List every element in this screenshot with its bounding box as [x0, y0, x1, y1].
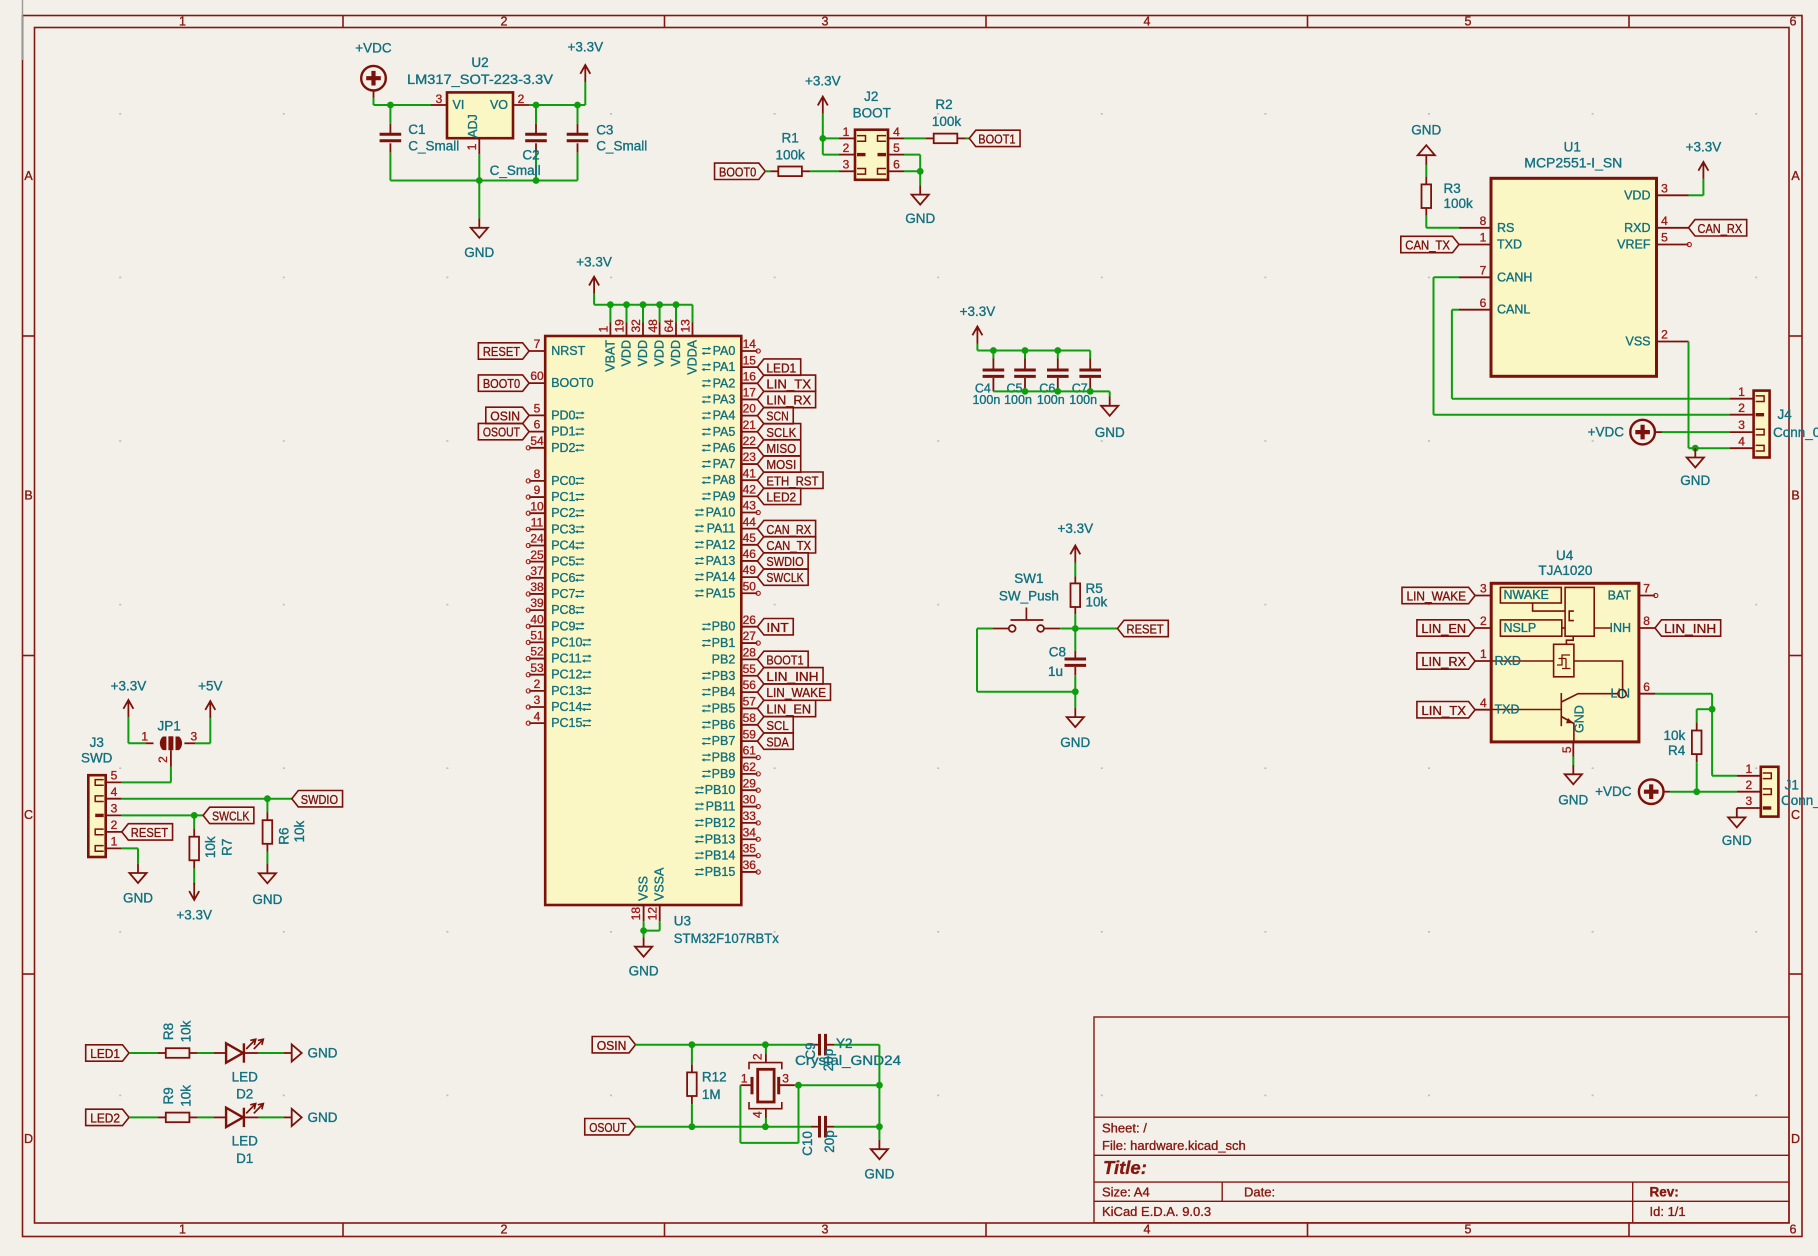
svg-text:C_Small: C_Small [408, 139, 459, 154]
svg-text:SWCLK: SWCLK [766, 570, 804, 585]
svg-text:LIN_WAKE: LIN_WAKE [1407, 589, 1467, 604]
svg-text:2: 2 [518, 92, 525, 106]
svg-text:LIN_RX: LIN_RX [1421, 654, 1466, 669]
svg-text:3: 3 [1480, 582, 1487, 596]
svg-text:PA7: PA7 [713, 457, 736, 471]
U3 pin 55 PB3 [702, 662, 758, 683]
svg-text:ADJ: ADJ [466, 114, 480, 138]
svg-text:5: 5 [1661, 231, 1668, 245]
svg-text:PB6: PB6 [712, 718, 736, 732]
svg-text:4: 4 [1738, 434, 1745, 448]
U3 pin 42 PA9 [702, 482, 758, 503]
wire +3.3V to J2 pins [823, 138, 839, 154]
svg-text:PB3: PB3 [712, 669, 736, 683]
svg-text:GND: GND [1558, 792, 1588, 807]
svg-text:PC14: PC14 [551, 700, 582, 714]
U3 pin 36 PB15 [695, 858, 761, 879]
svg-text:1: 1 [179, 1223, 186, 1237]
junction R12 bottom [689, 1123, 696, 1130]
svg-text:8: 8 [1643, 614, 1650, 628]
svg-text:B: B [24, 489, 32, 503]
svg-text:J4: J4 [1777, 407, 1792, 422]
junction SWCLK/R7 [191, 812, 198, 819]
svg-text:+3.3V: +3.3V [176, 907, 212, 922]
U3 pin 60 BOOT0 [529, 369, 594, 390]
svg-text:23: 23 [743, 450, 757, 464]
U3 pin 13 VDDA (top) [679, 319, 700, 375]
svg-text:INH: INH [1609, 621, 1631, 635]
wire +VDC to VI [374, 98, 432, 106]
svg-text:GND: GND [864, 1167, 894, 1182]
unconnected BAT pin [1654, 593, 1658, 597]
svg-text:JP1: JP1 [157, 718, 180, 733]
svg-text:PC7: PC7 [551, 587, 575, 601]
grid dots [119, 113, 1757, 1096]
svg-text:PA15: PA15 [706, 586, 736, 600]
svg-text:11: 11 [531, 515, 544, 529]
svg-text:A: A [1791, 169, 1800, 183]
svg-text:B: B [1791, 489, 1799, 503]
svg-text:PA5: PA5 [713, 425, 736, 439]
svg-text:4: 4 [1144, 1223, 1151, 1237]
U3 pin 27 PB1 [702, 629, 761, 650]
svg-text:20: 20 [743, 402, 757, 416]
U3 pin 15 PA1 [702, 353, 758, 374]
svg-text:OSIN: OSIN [490, 409, 520, 424]
svg-text:LIN_INH: LIN_INH [766, 669, 818, 684]
svg-text:39: 39 [530, 596, 544, 610]
svg-text:C3: C3 [596, 123, 613, 138]
global label BOOT0 (J2) [715, 163, 766, 179]
U3 pin 24 PC4 [526, 532, 585, 553]
svg-text:4: 4 [1144, 15, 1151, 29]
U3 pin 21 PA5 [702, 418, 758, 439]
U3 pin 54 PD2 [526, 434, 585, 455]
svg-text:100n: 100n [972, 393, 1000, 407]
svg-text:4: 4 [111, 785, 118, 799]
svg-text:PB9: PB9 [712, 767, 736, 781]
U3 pin 20 PA4 [702, 402, 758, 423]
title block [1094, 1017, 1789, 1223]
U3 pin 22 PA6 [702, 434, 758, 455]
svg-text:GND: GND [464, 245, 494, 260]
svg-text:30: 30 [743, 793, 757, 807]
ground symbol (U3) [629, 937, 659, 978]
svg-text:R2: R2 [935, 97, 952, 112]
svg-text:36: 36 [743, 858, 757, 872]
connector J3 [81, 735, 122, 857]
svg-text:3: 3 [1745, 794, 1752, 808]
svg-text:+3.3V: +3.3V [805, 73, 841, 88]
power symbol +VDC (J1) [1595, 779, 1737, 804]
CAN transceiver U1 [1459, 139, 1689, 376]
svg-text:50: 50 [743, 579, 757, 593]
svg-text:OSOUT: OSOUT [589, 1120, 626, 1135]
svg-text:1: 1 [1738, 385, 1745, 399]
svg-text:PB0: PB0 [712, 620, 736, 634]
svg-text:C2: C2 [522, 148, 539, 163]
junction C2 top [533, 102, 540, 109]
svg-text:OSOUT: OSOUT [483, 425, 520, 440]
svg-text:7: 7 [1643, 582, 1650, 596]
svg-text:10k: 10k [292, 820, 307, 842]
svg-text:BOOT: BOOT [853, 106, 891, 121]
U3 pin 41 PA8 [702, 466, 758, 487]
svg-text:PA3: PA3 [713, 392, 736, 406]
global label SCL (U3) [757, 717, 793, 733]
svg-text:PA14: PA14 [706, 570, 736, 584]
wire JP1 pin2 to J3 pin5 [122, 767, 171, 783]
svg-text:RS: RS [1497, 221, 1514, 235]
resistor R4 [1664, 709, 1713, 792]
svg-text:2: 2 [1745, 778, 1752, 792]
svg-text:3: 3 [436, 92, 443, 106]
LIN transceiver U4 [1491, 548, 1639, 742]
svg-text:LIN_TX: LIN_TX [766, 376, 811, 391]
svg-text:41: 41 [743, 466, 757, 480]
U3 pin 44 PA11 [695, 515, 758, 536]
svg-text:LM317_SOT-223-3.3V: LM317_SOT-223-3.3V [407, 72, 553, 87]
svg-text:GND: GND [629, 964, 659, 979]
svg-text:55: 55 [743, 662, 757, 676]
svg-text:LED: LED [232, 1069, 259, 1084]
svg-text:6: 6 [1643, 680, 1650, 694]
U3 pin 62 PB9 [702, 760, 761, 781]
svg-text:A: A [24, 169, 33, 183]
svg-text:LED2: LED2 [766, 489, 796, 504]
U3 pin 37 PC6 [526, 564, 585, 585]
resistor R8 [129, 1020, 214, 1057]
svg-text:10k: 10k [1086, 595, 1108, 610]
svg-text:PC4: PC4 [551, 539, 575, 553]
wire to gnd (SW1) [1074, 692, 1076, 708]
global label LED2 [86, 1109, 129, 1125]
svg-text:+3.3V: +3.3V [567, 39, 603, 54]
ground symbol (crystal) [864, 1140, 894, 1182]
svg-text:6: 6 [1480, 296, 1487, 310]
global label LED1 [86, 1045, 129, 1061]
wire J3 pin4 SWDIO [122, 798, 292, 800]
svg-text:29: 29 [743, 776, 757, 790]
svg-text:4: 4 [1480, 696, 1487, 710]
svg-text:9: 9 [534, 483, 541, 497]
svg-text:48: 48 [646, 319, 660, 333]
resistor R5 [1071, 576, 1108, 628]
svg-text:RESET: RESET [131, 825, 168, 840]
global label MISO (U3) [757, 440, 800, 456]
svg-text:10k: 10k [179, 1085, 194, 1107]
svg-text:4: 4 [1661, 214, 1668, 228]
svg-text:LIN: LIN [1611, 687, 1630, 701]
svg-text:PD1: PD1 [551, 425, 575, 439]
junction R12 top [689, 1041, 696, 1048]
svg-text:GND: GND [252, 892, 282, 907]
capacitor C9 [803, 1034, 879, 1071]
connector J4 [1730, 385, 1818, 458]
svg-text:VDD: VDD [636, 340, 650, 366]
svg-text:Conn_01x03: Conn_01x03 [1781, 793, 1818, 808]
svg-text:51: 51 [530, 629, 544, 643]
svg-text:PB11: PB11 [706, 800, 736, 814]
U3 pin 32 VDD (top) [629, 305, 650, 367]
global label RESET (J3) [122, 824, 173, 840]
svg-text:VREF: VREF [1617, 238, 1651, 252]
U3 pin 12 VSSA (bottom) [645, 867, 666, 921]
power symbol +3.3V inverted (R7) [176, 883, 212, 922]
wire crystal pin1 loop [740, 1085, 798, 1143]
svg-text:C1: C1 [408, 122, 425, 137]
svg-text:D: D [1791, 1132, 1800, 1146]
svg-text:Conn_01x04: Conn_01x04 [1773, 425, 1818, 440]
svg-text:RXD: RXD [1624, 221, 1650, 235]
svg-text:1: 1 [465, 143, 479, 150]
U3 +3.3V power bus [576, 254, 692, 322]
svg-text:+VDC: +VDC [355, 41, 392, 56]
svg-text:40: 40 [530, 612, 544, 626]
regulator U2 [407, 55, 553, 154]
junction C5 top [1022, 347, 1029, 354]
junction C8 gnd [1072, 688, 1079, 695]
U3 pin 1 VBAT (top) [597, 305, 618, 372]
ground symbol (D2) [284, 1044, 338, 1061]
global label INT (U3) [757, 619, 793, 635]
svg-text:PC1: PC1 [551, 490, 575, 504]
svg-text:SCL: SCL [766, 718, 788, 733]
svg-text:2: 2 [1480, 614, 1487, 628]
svg-text:7: 7 [534, 337, 541, 351]
power symbol +3.3V (U2 out) [567, 39, 603, 82]
U3 pin 33 PB12 [695, 809, 761, 830]
svg-text:3: 3 [1738, 418, 1745, 432]
resistor R9 [129, 1085, 214, 1122]
svg-text:3: 3 [1661, 181, 1668, 195]
power symbol +VDC (U2 input) [355, 41, 392, 98]
svg-text:PA4: PA4 [713, 409, 736, 423]
ground symbol (R3, flipped) [1411, 123, 1441, 165]
U3 pin 38 PC7 [526, 580, 585, 601]
svg-text:GND: GND [1573, 705, 1587, 733]
U3 pin 11 PC3 [526, 515, 585, 536]
global label LIN_TX (U4) [1417, 702, 1475, 718]
svg-text:VSSA: VSSA [653, 867, 667, 901]
svg-text:100n: 100n [1037, 393, 1065, 407]
svg-text:GND: GND [123, 891, 153, 906]
ground symbol (J2) [905, 185, 935, 226]
U3 pin 17 PA3 [702, 386, 758, 407]
svg-text:Y2: Y2 [836, 1036, 853, 1051]
junction C4 top [990, 347, 997, 354]
U3 pin 34 PB13 [695, 825, 761, 846]
svg-text:1: 1 [1745, 762, 1752, 776]
junction J2 gnd [917, 168, 924, 175]
resistor R7 [189, 815, 234, 884]
svg-text:100k: 100k [932, 114, 962, 129]
global label MOSI (U3) [757, 456, 800, 472]
svg-text:27: 27 [743, 629, 757, 643]
svg-text:LIN_WAKE: LIN_WAKE [766, 685, 826, 700]
power symbol +VDC (J4) [1588, 420, 1730, 445]
svg-text:2: 2 [751, 1053, 765, 1060]
svg-text:LIN_EN: LIN_EN [1421, 621, 1466, 636]
junction ADJ gnd [476, 177, 483, 184]
svg-text:Sheet: /: Sheet: / [1102, 1121, 1147, 1136]
svg-text:59: 59 [743, 727, 757, 741]
U3 pin 9 PC1 [526, 483, 585, 504]
global label CAN_RX (U3) [757, 520, 815, 536]
svg-text:U1: U1 [1564, 139, 1581, 154]
svg-text:43: 43 [743, 499, 757, 513]
global label RESET (U3) [478, 343, 529, 359]
svg-text:R3: R3 [1444, 181, 1461, 196]
svg-text:MOSI: MOSI [766, 457, 796, 472]
svg-text:19: 19 [613, 319, 627, 333]
U3 pin 56 PB4 [702, 678, 758, 699]
svg-text:CANH: CANH [1497, 270, 1532, 284]
U3 pin 23 PA7 [702, 450, 758, 471]
resistor R1 [765, 131, 839, 177]
svg-text:Rev:: Rev: [1650, 1185, 1679, 1200]
svg-text:22: 22 [743, 434, 757, 448]
capacitor C7 [1069, 351, 1101, 408]
U3 pin 5 PD0 [529, 402, 585, 423]
svg-text:58: 58 [743, 711, 757, 725]
svg-text:42: 42 [743, 482, 757, 496]
U3 pin 50 PA15 [695, 579, 761, 600]
svg-text:+3.3V: +3.3V [111, 678, 147, 693]
global label OSOUT (crystal) [585, 1119, 636, 1135]
global label SWCLK (U3) [757, 569, 808, 585]
U3 pin 26 PB0 [702, 613, 758, 634]
svg-text:BOOT0: BOOT0 [551, 376, 593, 390]
svg-text:VO: VO [490, 98, 508, 112]
svg-text:VDD: VDD [620, 340, 634, 366]
U3 pin 7 NRST [529, 337, 585, 358]
U3 pin 30 PB11 [695, 793, 761, 814]
svg-text:4: 4 [751, 1111, 765, 1118]
svg-text:+3.3V: +3.3V [1686, 139, 1722, 154]
crystal Y2 [740, 1036, 901, 1127]
global label LIN_INH (U3) [757, 668, 823, 684]
U3 pin 46 PA13 [695, 547, 758, 568]
svg-text:R7: R7 [220, 839, 235, 856]
capacitor C8 [1048, 629, 1086, 692]
svg-text:10: 10 [530, 499, 544, 513]
svg-text:SWCLK: SWCLK [212, 809, 250, 824]
U3 pin 58 PB6 [702, 711, 758, 732]
ground symbol (J3) [123, 864, 153, 906]
ground symbol (R6) [252, 864, 282, 907]
svg-text:37: 37 [530, 564, 544, 578]
junction U3 vdd bus [623, 301, 630, 308]
svg-text:10k: 10k [179, 1020, 194, 1042]
U3 pin 49 PA14 [695, 563, 758, 584]
U3 pin 10 PC2 [526, 499, 585, 520]
svg-text:3: 3 [822, 15, 829, 29]
svg-text:SDA: SDA [766, 734, 789, 749]
capacitor C6 [1037, 351, 1069, 408]
svg-text:INT: INT [766, 620, 789, 635]
svg-text:6: 6 [1790, 1223, 1797, 1237]
ground symbol (D1) [284, 1109, 338, 1126]
svg-text:CAN_TX: CAN_TX [766, 538, 811, 553]
global label SCN (U3) [757, 407, 793, 423]
svg-text:52: 52 [530, 645, 544, 659]
svg-text:C: C [1791, 808, 1800, 822]
svg-text:BOOT0: BOOT0 [719, 164, 756, 179]
svg-text:62: 62 [743, 760, 757, 774]
junction C3 top [574, 102, 581, 109]
svg-text:8: 8 [534, 467, 541, 481]
svg-text:6: 6 [893, 158, 900, 172]
junction right rail mid [876, 1082, 883, 1089]
global label LIN_WAKE (U3) [757, 684, 830, 700]
svg-text:1: 1 [141, 730, 148, 744]
push button SW1 [977, 571, 1075, 632]
svg-text:35: 35 [743, 842, 757, 856]
svg-text:SW1: SW1 [1014, 571, 1043, 586]
svg-text:1: 1 [741, 1072, 748, 1086]
svg-text:PC3: PC3 [551, 522, 575, 536]
svg-text:1: 1 [597, 326, 611, 333]
U3 pin 19 VDD (top) [613, 305, 634, 367]
svg-text:VDD: VDD [669, 340, 683, 366]
global label CAN_RX (U1) [1689, 220, 1747, 236]
svg-text:44: 44 [743, 515, 757, 529]
U3 pin 57 PB5 [702, 695, 758, 716]
svg-text:53: 53 [530, 661, 544, 675]
svg-text:Date:: Date: [1244, 1185, 1275, 1200]
U3 pin 28 PB2 [712, 646, 758, 667]
svg-text:PD2: PD2 [551, 441, 575, 455]
svg-text:2: 2 [111, 818, 118, 832]
svg-text:Size: A4: Size: A4 [1102, 1185, 1150, 1200]
svg-text:15: 15 [743, 353, 757, 367]
svg-text:4: 4 [893, 125, 900, 139]
svg-text:1: 1 [111, 835, 118, 849]
svg-text:3: 3 [843, 158, 850, 172]
svg-text:+3.3V: +3.3V [576, 254, 612, 269]
svg-text:OSIN: OSIN [597, 1038, 627, 1053]
svg-text:2: 2 [501, 1223, 508, 1237]
svg-text:C_Small: C_Small [596, 139, 647, 154]
capacitor C10 [800, 1116, 879, 1156]
global label LED1 (U3) [757, 359, 800, 375]
U3 pin 3 PC14 [526, 693, 592, 714]
svg-text:14: 14 [743, 337, 757, 351]
svg-text:100n: 100n [1004, 393, 1032, 407]
global label OSOUT (U3) [478, 423, 529, 439]
svg-text:PA2: PA2 [713, 376, 736, 390]
svg-text:45: 45 [743, 531, 757, 545]
svg-text:3: 3 [782, 1072, 789, 1086]
U3 pin 25 PC5 [526, 548, 585, 569]
svg-text:LED1: LED1 [90, 1046, 120, 1061]
svg-text:24: 24 [530, 532, 544, 546]
U4 internal logic graphics [1491, 587, 1631, 742]
svg-text:5: 5 [1465, 15, 1472, 29]
svg-text:BAT: BAT [1608, 589, 1632, 603]
wire right gnd rail [878, 1045, 880, 1140]
ground symbol (U4 pin5) [1558, 757, 1588, 808]
svg-text:2: 2 [1738, 401, 1745, 415]
svg-text:3: 3 [822, 1223, 829, 1237]
U3 pin 14 PA0 [702, 337, 761, 358]
ground symbol (J1 pin3) [1722, 808, 1752, 848]
svg-text:7: 7 [1480, 263, 1487, 277]
U3 pin 43 PA10 [695, 499, 761, 520]
svg-text:GND: GND [1095, 425, 1125, 440]
U3 pin 61 PB8 [702, 744, 761, 765]
